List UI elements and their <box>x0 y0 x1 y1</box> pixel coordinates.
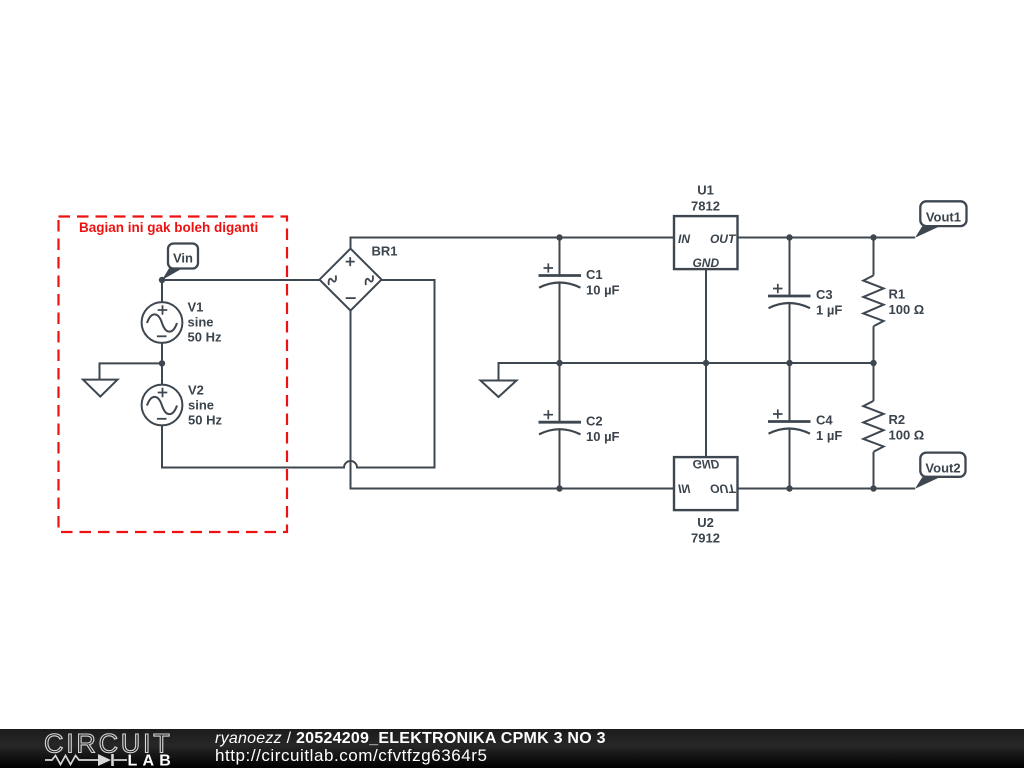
voltage source V2 <box>142 382 223 427</box>
svg-text:100 Ω: 100 Ω <box>889 302 925 317</box>
net flag Vin <box>162 244 198 281</box>
wire middle rail <box>560 362 874 364</box>
svg-text:OUT: OUT <box>710 481 737 495</box>
ground (left) <box>83 380 118 397</box>
junction on middle rail at C1/C2 <box>556 360 562 366</box>
svg-text:GND: GND <box>692 457 719 471</box>
svg-text:Bagian ini gak boleh diganti: Bagian ini gak boleh diganti <box>79 220 258 235</box>
svg-text:R1: R1 <box>889 287 906 302</box>
svg-text:Vin: Vin <box>173 251 193 266</box>
junction on middle rail at C3/C4 <box>786 360 792 366</box>
wire U1 OUT to Vout1 <box>738 237 916 239</box>
svg-text:1 µF: 1 µF <box>816 428 842 443</box>
svg-text:C4: C4 <box>816 413 833 428</box>
svg-text:IN: IN <box>678 232 690 246</box>
svg-text:sine: sine <box>188 315 214 330</box>
svg-text:C3: C3 <box>816 287 833 302</box>
wire junction to V2 top <box>161 363 163 384</box>
footer url line <box>215 747 487 764</box>
svg-text:50 Hz: 50 Hz <box>188 330 222 345</box>
svg-text:LAB: LAB <box>128 753 176 768</box>
resistor R2 <box>863 363 924 489</box>
capacitor C4 <box>768 363 842 489</box>
junction node between V1 and V2 <box>159 360 165 366</box>
svg-text:7912: 7912 <box>691 530 720 545</box>
ground (middle) <box>481 381 517 398</box>
wire junction to ground stub <box>100 363 163 379</box>
svg-text:50 Hz: 50 Hz <box>188 412 222 427</box>
net flag Vout1 <box>915 201 967 237</box>
wire Vin node to BR1 left terminal <box>162 279 320 281</box>
wire middle rail to ground stub <box>499 363 560 381</box>
bridge rectifier BR1 <box>320 244 398 311</box>
svg-text:10 µF: 10 µF <box>586 429 620 444</box>
svg-text:1 µF: 1 µF <box>816 303 842 318</box>
junction on middle rail at R1/R2 <box>870 360 876 366</box>
svg-text:100 Ω: 100 Ω <box>889 428 925 443</box>
wire Vin node down to V1 <box>161 280 163 302</box>
junction node at Vin <box>159 277 165 283</box>
junction on bottom rail at C2 <box>556 485 562 491</box>
wire U2 OUT to Vout2 <box>738 488 916 490</box>
svg-text:C2: C2 <box>586 414 603 429</box>
junction on top rail at C3 <box>786 234 792 240</box>
svg-text:Vout1: Vout1 <box>926 209 961 224</box>
junction on bottom rail at R2 <box>870 485 876 491</box>
voltage source V1 <box>142 300 222 345</box>
svg-text:V2: V2 <box>188 382 204 397</box>
enclosure: red dashed keep-out box <box>59 217 288 533</box>
regulator U2 7912 (flipped) <box>674 457 738 546</box>
resistor R1 <box>863 238 924 364</box>
junction on top rail at C1 <box>556 234 562 240</box>
capacitor C3 <box>768 238 842 364</box>
svg-text:U1: U1 <box>697 182 714 197</box>
wire BR1 bottom terminal down and right to U2 <box>351 311 675 489</box>
svg-text:V1: V1 <box>188 300 204 315</box>
net flag Vout2 <box>915 453 966 489</box>
svg-text:OUT: OUT <box>710 232 737 246</box>
junction on middle rail at U1/U2 GND <box>703 360 709 366</box>
svg-text:GND: GND <box>692 256 719 270</box>
footer title line <box>215 731 606 747</box>
junction on top rail at R1 <box>870 234 876 240</box>
svg-text:7812: 7812 <box>691 198 720 213</box>
CircuitLab logo <box>0 729 200 768</box>
svg-text:R2: R2 <box>889 412 906 427</box>
svg-text:sine: sine <box>188 397 214 412</box>
svg-text:10 µF: 10 µF <box>586 282 620 297</box>
junction on bottom rail at C4 <box>786 485 792 491</box>
wire U1 GND pin to middle rail <box>705 269 707 363</box>
svg-text:Vout2: Vout2 <box>925 460 960 475</box>
svg-text:U2: U2 <box>697 515 714 530</box>
svg-text:BR1: BR1 <box>372 244 398 259</box>
wire U2 GND pin to middle rail <box>705 363 707 457</box>
svg-text:C1: C1 <box>586 267 603 282</box>
wire V1 to center junction <box>161 343 163 364</box>
capacitor C1 <box>539 238 620 364</box>
wire V2 bottom to hop then BR1 right terminal <box>162 280 435 468</box>
wire BR1 top terminal to U1 IN <box>351 238 675 249</box>
capacitor C2 <box>539 363 620 489</box>
regulator U1 7812 <box>674 182 738 270</box>
svg-text:IN: IN <box>678 481 690 495</box>
